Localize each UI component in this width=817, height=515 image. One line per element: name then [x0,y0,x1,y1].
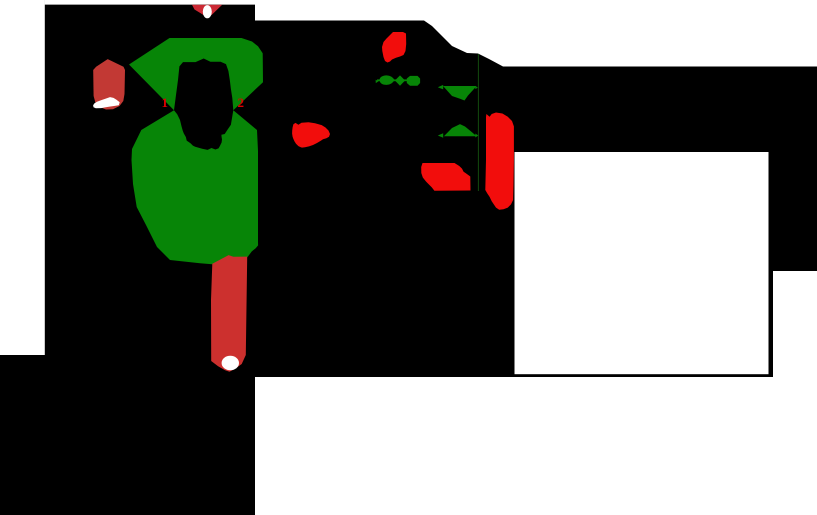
svg-text:2: 2 [238,95,245,110]
white ellipse at bar bottom [222,356,239,370]
lower bowtie left tick [438,133,443,137]
green connector line [377,79,407,81]
red low blob [421,163,470,191]
red octagon blob [93,59,125,109]
white right column [773,271,817,515]
green leaf ellipse [379,75,394,85]
white oval in top blob [203,5,212,18]
red top trapezoid blob [192,5,222,19]
white top band with slope [45,0,817,67]
svg-text:1: 1 [162,95,169,110]
red long bottom bar [211,255,247,372]
green hexagon [407,76,420,86]
white middle-right rectangle [515,152,769,374]
green thin vertical line [478,54,479,191]
red tall bar [485,113,514,210]
white cloud under octagon [93,97,120,108]
green lower bowtie triangle [444,124,477,136]
red mid-right blob [292,122,330,147]
upper bowtie left tick [438,85,443,90]
white left strip [0,0,45,355]
lower bowtie right tick [475,134,478,138]
green hourglass region with head hole [129,38,263,264]
green tick left of leaf [376,80,379,83]
red egg blob [382,32,406,63]
green upper bowtie triangle [443,86,477,101]
green diamond [395,75,405,85]
white bottom region [255,377,817,515]
upper bowtie right tick [475,86,478,89]
